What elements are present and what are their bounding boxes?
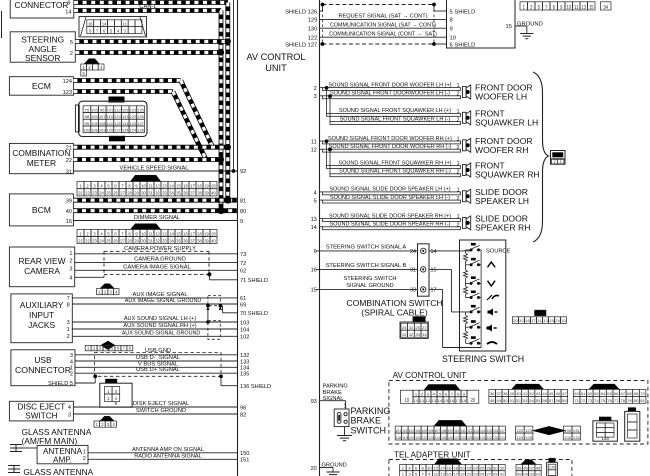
svg-text:5 SHIELD: 5 SHIELD bbox=[450, 9, 476, 15]
svg-text:1: 1 bbox=[98, 290, 101, 295]
svg-text:125: 125 bbox=[441, 436, 446, 440]
meter connector cap bbox=[130, 175, 161, 182]
svg-text:75: 75 bbox=[601, 399, 606, 403]
svg-text:122: 122 bbox=[308, 35, 318, 41]
svg-text:13: 13 bbox=[162, 231, 167, 236]
svg-text:11: 11 bbox=[122, 21, 127, 26]
svg-text:45: 45 bbox=[549, 392, 554, 396]
svg-text:ECM: ECM bbox=[32, 81, 51, 91]
svg-text:107: 107 bbox=[435, 429, 440, 433]
svg-text:AUX SOUND SIGNAL RH (+): AUX SOUND SIGNAL RH (+) bbox=[123, 323, 196, 329]
svg-text:3: 3 bbox=[68, 412, 71, 418]
tel adapter dashed box bbox=[389, 460, 572, 476]
svg-text:COMBINATION: COMBINATION bbox=[12, 149, 70, 158]
svg-text:STEERING: STEERING bbox=[21, 35, 64, 45]
svg-text:124: 124 bbox=[130, 128, 136, 132]
pin 6 shield label bbox=[450, 43, 476, 49]
svg-text:21: 21 bbox=[78, 191, 83, 196]
junction aux tie on lh wire bbox=[206, 320, 210, 324]
svg-text:127: 127 bbox=[114, 128, 120, 132]
pin 31 bbox=[410, 268, 416, 274]
slide door speaker lh label bbox=[475, 187, 529, 206]
svg-text:17: 17 bbox=[190, 231, 195, 236]
svg-text:DISK EJECT SIGNAL: DISK EJECT SIGNAL bbox=[133, 401, 190, 407]
svg-text:81: 81 bbox=[640, 399, 645, 403]
wire CAN-H from connector pin 9 bbox=[74, 0, 228, 5]
svg-text:51: 51 bbox=[510, 399, 515, 403]
svg-text:2: 2 bbox=[70, 372, 73, 378]
branch verticals to squawker rh bbox=[327, 141, 331, 174]
svg-text:13: 13 bbox=[581, 5, 586, 11]
svg-text:15: 15 bbox=[176, 231, 181, 236]
svg-text:99: 99 bbox=[85, 122, 90, 126]
icon phone down bbox=[487, 342, 497, 344]
svg-text:8: 8 bbox=[67, 302, 70, 308]
svg-text:33: 33 bbox=[162, 238, 167, 243]
slide door speaker rh label bbox=[475, 214, 530, 233]
svg-text:69: 69 bbox=[634, 392, 639, 396]
svg-text:33: 33 bbox=[415, 333, 420, 337]
ecm connector body bbox=[75, 101, 147, 136]
svg-text:3: 3 bbox=[67, 320, 70, 326]
svg-text:35: 35 bbox=[176, 238, 181, 243]
svg-text:136 SHIELD: 136 SHIELD bbox=[240, 384, 271, 390]
junction bus B end / bcm 39 bbox=[224, 197, 231, 204]
svg-text:AUXILIARY: AUXILIARY bbox=[20, 300, 64, 310]
svg-text:SIGNAL: SIGNAL bbox=[323, 396, 344, 402]
tel conn I cap bbox=[521, 460, 537, 465]
svg-text:AV CONTROL: AV CONTROL bbox=[246, 52, 305, 62]
svg-text:4: 4 bbox=[408, 467, 410, 471]
conn D bbox=[395, 426, 505, 440]
svg-text:111: 111 bbox=[107, 122, 113, 126]
wire steering sensor pin 2 bbox=[75, 50, 221, 55]
icon vol plus bbox=[487, 325, 497, 332]
spiral cable connector bbox=[418, 244, 430, 296]
svg-text:82: 82 bbox=[240, 412, 246, 418]
svg-text:18: 18 bbox=[453, 467, 458, 471]
wire steering switch signal a bbox=[316, 250, 418, 252]
svg-text:124: 124 bbox=[435, 436, 440, 440]
svg-text:15: 15 bbox=[444, 398, 449, 403]
wire front squawker rh + bbox=[327, 166, 461, 169]
svg-text:20: 20 bbox=[311, 466, 317, 472]
pin 15c bbox=[431, 268, 437, 274]
pin 17 bbox=[431, 288, 437, 294]
svg-text:USB: USB bbox=[34, 355, 52, 365]
pin 13 bbox=[311, 217, 317, 223]
camera ground label bbox=[134, 257, 186, 263]
svg-text:27: 27 bbox=[120, 191, 125, 196]
pin 4 bbox=[314, 190, 317, 196]
conn B cap bbox=[511, 384, 544, 390]
svg-text:7: 7 bbox=[121, 231, 124, 236]
ground symbol bottom bbox=[327, 472, 340, 476]
svg-text:125: 125 bbox=[525, 436, 532, 440]
svg-text:(AM/FM MAIN): (AM/FM MAIN) bbox=[22, 436, 78, 446]
svg-text:60: 60 bbox=[574, 392, 579, 396]
svg-text:40: 40 bbox=[66, 209, 72, 215]
svg-text:24: 24 bbox=[555, 319, 560, 323]
svg-text:55: 55 bbox=[536, 399, 541, 403]
speaker slide door rh bbox=[463, 216, 471, 230]
svg-text:64: 64 bbox=[601, 392, 606, 396]
junction bus A / sensor 2 bbox=[218, 49, 224, 55]
svg-text:15: 15 bbox=[589, 5, 594, 11]
disc eject switch bbox=[9, 401, 73, 421]
svg-text:32: 32 bbox=[409, 333, 414, 337]
svg-text:SHIELD 5: SHIELD 5 bbox=[48, 381, 73, 387]
usb 5pin connector bbox=[100, 383, 132, 407]
svg-text:DISC EJECT: DISC EJECT bbox=[18, 403, 66, 412]
svg-text:80: 80 bbox=[634, 399, 639, 403]
svg-text:5: 5 bbox=[83, 71, 86, 76]
sound signal front door woofer lh - label bbox=[330, 91, 450, 97]
wire slide door speaker rh - bbox=[320, 227, 461, 230]
usb connector bbox=[11, 350, 75, 387]
icon vol minus bbox=[488, 309, 498, 316]
svg-text:132: 132 bbox=[487, 436, 492, 440]
switch ground label bbox=[136, 408, 186, 414]
svg-text:SHIELD 127: SHIELD 127 bbox=[285, 43, 317, 49]
svg-text:2: 2 bbox=[104, 290, 107, 295]
pin 72 bbox=[240, 261, 246, 267]
svg-text:9: 9 bbox=[135, 184, 138, 189]
parking brake signal label bbox=[323, 384, 348, 403]
wire usb d- bbox=[75, 360, 238, 362]
wire request signal 129-8 bbox=[320, 18, 447, 20]
svg-text:67: 67 bbox=[621, 392, 626, 396]
wire antenna amp on signal bbox=[88, 452, 238, 454]
svg-text:SHIELD 126: SHIELD 126 bbox=[285, 9, 317, 15]
svg-text:106: 106 bbox=[91, 128, 97, 132]
usb shield corner dots bbox=[93, 374, 223, 378]
svg-text:12: 12 bbox=[434, 467, 439, 471]
svg-text:109: 109 bbox=[99, 128, 105, 132]
wire front squawker rh - bbox=[330, 174, 461, 177]
bcm connector cap bbox=[130, 224, 161, 230]
wire vehicle speed signal (meter 31 to pin 92) bbox=[73, 170, 237, 172]
pin 71 shield bbox=[240, 278, 268, 284]
svg-text:117: 117 bbox=[499, 429, 504, 433]
svg-text:7: 7 bbox=[121, 184, 124, 189]
pin 136 shield bbox=[240, 384, 271, 390]
usb gnd label bbox=[145, 348, 171, 354]
svg-text:123: 123 bbox=[525, 429, 532, 433]
svg-text:AMP.: AMP. bbox=[53, 455, 72, 464]
wire slide door speaker lh - bbox=[320, 200, 461, 203]
steering switch right rail bbox=[480, 250, 482, 348]
woofer lh branch dots bbox=[325, 86, 332, 98]
svg-text:73: 73 bbox=[240, 252, 246, 258]
svg-text:13: 13 bbox=[311, 217, 317, 223]
svg-text:METER: METER bbox=[27, 158, 56, 168]
pin 5b bbox=[314, 199, 317, 205]
svg-text:121: 121 bbox=[415, 436, 420, 440]
svg-text:70 SHIELD: 70 SHIELD bbox=[240, 311, 268, 317]
conn D cap bbox=[434, 420, 467, 426]
svg-text:4: 4 bbox=[117, 28, 120, 33]
wire front door woofer rh + bbox=[320, 141, 461, 144]
svg-text:95: 95 bbox=[517, 467, 522, 471]
svg-text:USB GND: USB GND bbox=[145, 348, 171, 354]
svg-text:8: 8 bbox=[89, 28, 92, 33]
camera connector 1234 bbox=[97, 289, 119, 295]
disc eject connector cap bbox=[100, 416, 115, 421]
av control unit dashed box bbox=[389, 381, 648, 445]
steering switch label bbox=[442, 354, 524, 364]
svg-text:3: 3 bbox=[109, 290, 112, 295]
parking brake ground bbox=[337, 427, 352, 441]
pin 14 bbox=[311, 225, 317, 231]
antenna amp bbox=[37, 445, 88, 464]
pin 132 bbox=[240, 353, 249, 359]
disk eject signal label bbox=[133, 401, 190, 407]
svg-text:123: 123 bbox=[428, 436, 433, 440]
svg-text:WOOFER RH: WOOFER RH bbox=[475, 145, 528, 155]
svg-text:76: 76 bbox=[607, 399, 612, 403]
front squawker rh label bbox=[475, 161, 540, 180]
pin 14b bbox=[431, 249, 437, 255]
svg-text:CAMERA GROUND: CAMERA GROUND bbox=[134, 257, 186, 263]
svg-text:103: 103 bbox=[409, 429, 414, 433]
aux sound rh label bbox=[123, 323, 196, 329]
svg-text:6: 6 bbox=[114, 184, 117, 189]
svg-text:58: 58 bbox=[555, 399, 560, 403]
conn A bbox=[401, 390, 479, 404]
svg-text:44: 44 bbox=[542, 392, 547, 396]
svg-text:40: 40 bbox=[516, 392, 521, 396]
svg-text:38: 38 bbox=[197, 238, 202, 243]
svg-text:7: 7 bbox=[67, 296, 70, 302]
parking brake switch symbol bbox=[337, 412, 347, 423]
meter connector strip bbox=[77, 182, 217, 196]
pin 135 bbox=[240, 372, 249, 378]
pin 134 bbox=[240, 366, 249, 372]
svg-text:105: 105 bbox=[91, 122, 97, 126]
svg-text:4: 4 bbox=[70, 359, 73, 365]
pin 3 bbox=[314, 94, 317, 100]
svg-text:37: 37 bbox=[190, 238, 195, 243]
svg-text:101: 101 bbox=[396, 429, 401, 433]
svg-text:107: 107 bbox=[99, 115, 105, 119]
svg-text:135: 135 bbox=[240, 372, 249, 378]
svg-text:77: 77 bbox=[614, 399, 619, 403]
svg-text:43: 43 bbox=[536, 392, 541, 396]
svg-text:75: 75 bbox=[85, 108, 90, 112]
svg-text:111: 111 bbox=[461, 429, 466, 433]
svg-text:74: 74 bbox=[594, 399, 599, 403]
steering switch resistor chain bbox=[464, 250, 472, 343]
icon up bbox=[488, 262, 496, 267]
svg-text:71 SHIELD: 71 SHIELD bbox=[240, 278, 268, 284]
svg-text:72: 72 bbox=[240, 261, 246, 267]
svg-text:130: 130 bbox=[474, 436, 479, 440]
wire dimmer signal (bcm 16 to pin 9) bbox=[73, 220, 237, 222]
svg-text:102: 102 bbox=[84, 128, 90, 132]
pin 2 bbox=[314, 86, 317, 92]
svg-text:30: 30 bbox=[493, 467, 498, 471]
svg-text:19: 19 bbox=[204, 184, 209, 189]
svg-text:40: 40 bbox=[211, 238, 216, 243]
svg-text:8: 8 bbox=[450, 18, 453, 24]
svg-text:3: 3 bbox=[530, 5, 532, 11]
wire ground 20 bbox=[320, 468, 334, 473]
svg-text:34: 34 bbox=[169, 238, 174, 243]
spiral cable label bbox=[361, 307, 428, 317]
svg-text:131: 131 bbox=[480, 436, 485, 440]
svg-text:17: 17 bbox=[190, 184, 195, 189]
svg-text:SPEAKER LH: SPEAKER LH bbox=[475, 196, 529, 206]
wire aux image signal bbox=[72, 297, 237, 299]
svg-text:128: 128 bbox=[137, 128, 143, 132]
pin 20 bbox=[311, 466, 317, 472]
radio antenna signal label bbox=[134, 453, 201, 459]
pin 96 bbox=[240, 405, 246, 411]
svg-text:93: 93 bbox=[311, 399, 317, 405]
svg-text:71: 71 bbox=[574, 399, 579, 403]
sound signal front squawker rh - label bbox=[339, 169, 451, 175]
speaker group brace bbox=[533, 72, 549, 242]
svg-text:4: 4 bbox=[112, 422, 115, 427]
svg-text:6: 6 bbox=[314, 249, 317, 255]
speaker front door woofer lh bbox=[463, 85, 471, 99]
glass antenna label 2 bbox=[23, 467, 93, 476]
svg-text:61: 61 bbox=[581, 392, 586, 396]
svg-text:25: 25 bbox=[415, 326, 420, 330]
svg-text:11: 11 bbox=[311, 139, 317, 145]
svg-text:18: 18 bbox=[197, 184, 202, 189]
svg-text:113: 113 bbox=[122, 115, 128, 119]
pin 69 bbox=[240, 303, 246, 309]
svg-text:SENSOR: SENSOR bbox=[25, 53, 60, 63]
wire switch ground bbox=[73, 413, 237, 415]
usb 5pin connector cap bbox=[105, 379, 117, 383]
svg-text:120: 120 bbox=[409, 436, 414, 440]
svg-text:27: 27 bbox=[120, 238, 125, 243]
aux sound lh label bbox=[124, 316, 197, 322]
svg-text:118: 118 bbox=[396, 436, 401, 440]
sat tuner box bbox=[447, 0, 516, 48]
svg-text:24: 24 bbox=[99, 191, 104, 196]
svg-text:1: 1 bbox=[69, 251, 72, 257]
svg-text:122: 122 bbox=[516, 429, 523, 433]
svg-text:10: 10 bbox=[561, 319, 566, 323]
svg-text:AUX SOUND SIGNAL LH (+): AUX SOUND SIGNAL LH (+) bbox=[124, 316, 197, 322]
pin 11 bbox=[311, 139, 317, 145]
svg-text:7: 7 bbox=[545, 5, 547, 11]
wire steering sensor pin 5 bbox=[75, 39, 228, 44]
svg-text:120: 120 bbox=[107, 128, 113, 132]
svg-text:2: 2 bbox=[67, 334, 70, 340]
svg-text:46: 46 bbox=[555, 392, 560, 396]
svg-text:9: 9 bbox=[135, 231, 138, 236]
svg-text:(SPIRAL CABLE): (SPIRAL CABLE) bbox=[361, 307, 428, 317]
svg-text:102: 102 bbox=[402, 429, 407, 433]
svg-text:1: 1 bbox=[107, 389, 110, 394]
svg-text:5: 5 bbox=[110, 28, 113, 33]
svg-text:4: 4 bbox=[115, 290, 118, 295]
svg-text:8: 8 bbox=[128, 184, 131, 189]
svg-text:133: 133 bbox=[493, 436, 498, 440]
steering angle sensor bbox=[10, 32, 75, 63]
conn C bbox=[573, 389, 646, 403]
svg-text:31: 31 bbox=[409, 326, 414, 330]
svg-text:15: 15 bbox=[176, 184, 181, 189]
svg-text:22: 22 bbox=[85, 238, 90, 243]
wire front squawker lh + bbox=[327, 113, 461, 116]
svg-text:114: 114 bbox=[122, 122, 128, 126]
svg-text:3: 3 bbox=[115, 389, 118, 394]
svg-text:36: 36 bbox=[183, 238, 188, 243]
wire usb gnd bbox=[75, 354, 238, 356]
svg-text:103: 103 bbox=[91, 108, 97, 112]
wire comm signal 130-9 bbox=[320, 27, 447, 29]
speaker pin labels woofer rh bbox=[457, 137, 460, 151]
svg-text:1: 1 bbox=[79, 184, 82, 189]
svg-text:12: 12 bbox=[155, 184, 160, 189]
pin 5 shield label bbox=[450, 9, 476, 15]
aux image signal label bbox=[132, 292, 188, 298]
svg-text:4: 4 bbox=[69, 276, 72, 282]
svg-text:25: 25 bbox=[106, 238, 111, 243]
inline connector (16/14/11, 8-3) bbox=[79, 17, 147, 37]
wire parking brake signal bbox=[320, 401, 346, 409]
svg-text:36: 36 bbox=[183, 191, 188, 196]
wire usb d+ bbox=[75, 372, 238, 374]
svg-text:122: 122 bbox=[422, 436, 427, 440]
svg-text:20: 20 bbox=[460, 467, 465, 471]
svg-text:122: 122 bbox=[122, 108, 128, 112]
svg-text:131: 131 bbox=[573, 429, 580, 433]
svg-text:36: 36 bbox=[490, 392, 495, 396]
svg-text:61: 61 bbox=[240, 296, 246, 302]
svg-text:98: 98 bbox=[536, 467, 541, 471]
tel conn H bbox=[400, 465, 506, 476]
svg-text:CONNECTOR: CONNECTOR bbox=[15, 366, 71, 375]
svg-text:6: 6 bbox=[415, 467, 417, 471]
svg-text:30: 30 bbox=[141, 191, 146, 196]
svg-text:GROUND: GROUND bbox=[517, 22, 543, 28]
wire steering switch signal b bbox=[316, 268, 418, 270]
svg-text:1: 1 bbox=[457, 188, 460, 194]
svg-text:96: 96 bbox=[523, 467, 528, 471]
wire camera ground bbox=[75, 261, 238, 263]
branch verticals to squawker lh bbox=[327, 88, 331, 122]
svg-text:WOOFER LH: WOOFER LH bbox=[475, 92, 527, 102]
svg-text:16: 16 bbox=[311, 268, 317, 274]
svg-text:15: 15 bbox=[431, 268, 437, 274]
svg-text:23: 23 bbox=[92, 238, 97, 243]
speaker pin labels squawker lh bbox=[457, 109, 460, 123]
svg-text:123: 123 bbox=[130, 108, 136, 112]
CAN-L label bbox=[139, 4, 157, 10]
wire combination meter pin 21 bbox=[73, 145, 227, 150]
svg-text:4: 4 bbox=[314, 190, 317, 196]
svg-text:10: 10 bbox=[566, 5, 571, 11]
svg-text:68: 68 bbox=[627, 392, 632, 396]
svg-text:54: 54 bbox=[529, 399, 534, 403]
svg-text:2: 2 bbox=[101, 422, 104, 427]
svg-text:104: 104 bbox=[240, 327, 249, 333]
svg-text:JACKS: JACKS bbox=[28, 320, 55, 330]
svg-text:SQUAWKER RH: SQUAWKER RH bbox=[475, 170, 540, 180]
svg-text:14: 14 bbox=[311, 225, 317, 231]
svg-text:1: 1 bbox=[523, 5, 525, 11]
svg-text:14: 14 bbox=[440, 467, 445, 471]
svg-text:11: 11 bbox=[148, 231, 153, 236]
svg-text:16: 16 bbox=[447, 467, 452, 471]
